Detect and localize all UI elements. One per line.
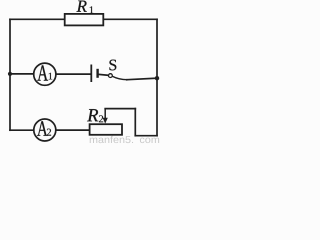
wire: bottom jog to right vertical bbox=[135, 135, 157, 137]
label S bbox=[109, 60, 116, 71]
wire: battery short plate to switch pivot bbox=[98, 73, 108, 76]
wire: vertical jog right of R2 bbox=[134, 109, 136, 136]
R2 wiper arrow stem bbox=[104, 109, 106, 119]
watermark manfen5.com bbox=[90, 138, 98, 143]
rheostat R2 body bbox=[90, 124, 122, 135]
wire: R2 wiper horizontal run bbox=[105, 108, 135, 110]
switch S lever bbox=[112, 76, 127, 80]
node: left junction dot bbox=[8, 72, 12, 76]
battery cell: long plate bbox=[90, 65, 92, 83]
wire: A2 to R2 left terminal bbox=[56, 129, 90, 131]
ammeter A2 bbox=[34, 119, 56, 141]
wire: top right segment from R1 bbox=[103, 18, 157, 20]
wire: right vertical branch bbox=[156, 19, 158, 135]
ammeter A1 bbox=[34, 63, 56, 85]
label R2 bbox=[87, 109, 98, 121]
switch S pivot terminal bbox=[109, 74, 113, 78]
R2 wiper arrow head bbox=[103, 118, 108, 124]
battery cell: short thick plate bbox=[96, 69, 98, 78]
wire: A1 to battery long plate bbox=[56, 73, 91, 75]
label R1 bbox=[77, 1, 87, 12]
wire: switch lever end to right junction bbox=[127, 78, 157, 80]
wire: middle row, left node to A1 bbox=[10, 73, 34, 75]
resistor R1 bbox=[65, 14, 104, 26]
wire: left vertical branch bbox=[9, 19, 11, 130]
node: right junction dot bbox=[155, 76, 159, 80]
wire: bottom row, left vertical to A2 bbox=[10, 129, 34, 131]
wire: top left segment to R1 bbox=[10, 18, 65, 20]
